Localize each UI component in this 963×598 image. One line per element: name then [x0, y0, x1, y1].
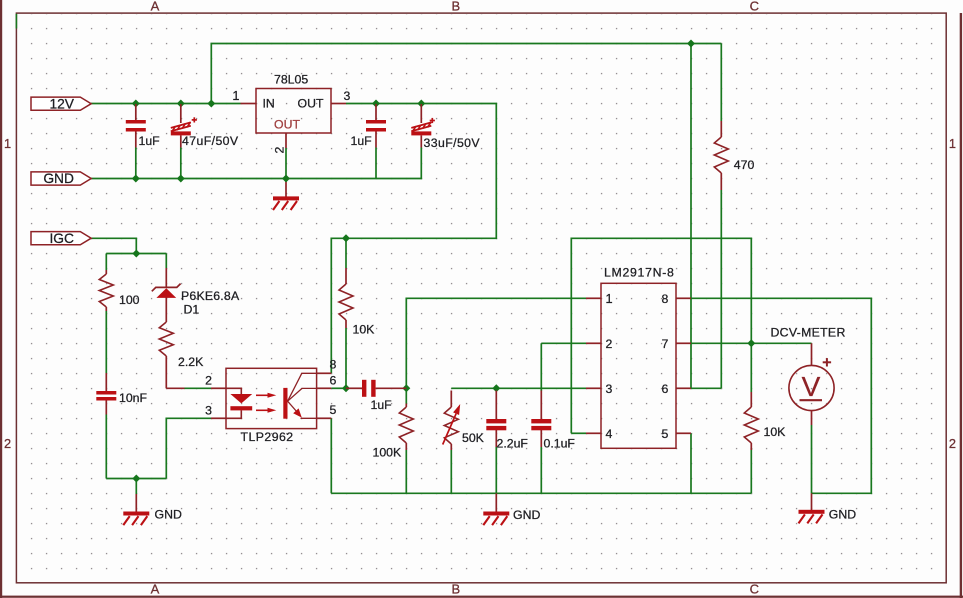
- svg-text:2: 2: [273, 147, 287, 154]
- svg-text:LM2917N-8: LM2917N-8: [604, 265, 675, 279]
- svg-text:IGC: IGC: [49, 231, 74, 246]
- svg-text:OUT: OUT: [298, 97, 324, 111]
- svg-text:3: 3: [205, 404, 212, 418]
- svg-text:8: 8: [661, 292, 668, 306]
- svg-text:5: 5: [661, 427, 668, 441]
- svg-text:10K: 10K: [764, 425, 787, 439]
- svg-text:P6KE6.8A: P6KE6.8A: [181, 289, 240, 303]
- svg-text:3: 3: [344, 89, 351, 103]
- svg-text:33uF/50V: 33uF/50V: [424, 136, 481, 150]
- svg-text:1uF: 1uF: [371, 398, 393, 412]
- svg-text:1: 1: [232, 88, 239, 103]
- svg-text:D1: D1: [184, 303, 200, 317]
- svg-text:5: 5: [330, 403, 337, 417]
- svg-text:4: 4: [606, 427, 613, 441]
- svg-text:10nF: 10nF: [119, 391, 148, 405]
- svg-text:47uF/50V: 47uF/50V: [182, 134, 239, 148]
- svg-text:1uF: 1uF: [139, 134, 161, 148]
- svg-text:1uF: 1uF: [351, 134, 373, 148]
- svg-text:A: A: [151, 0, 160, 14]
- svg-text:6: 6: [330, 373, 337, 387]
- svg-text:2: 2: [205, 374, 212, 388]
- svg-text:A: A: [151, 581, 160, 596]
- svg-text:50K: 50K: [462, 431, 485, 445]
- svg-text:GND: GND: [155, 507, 182, 521]
- svg-text:10K: 10K: [353, 323, 376, 337]
- svg-text:2: 2: [606, 337, 613, 351]
- svg-text:GND: GND: [829, 508, 856, 522]
- svg-text:V: V: [802, 371, 821, 402]
- svg-text:C: C: [750, 0, 759, 14]
- svg-text:2: 2: [949, 436, 956, 451]
- svg-text:7: 7: [661, 337, 668, 351]
- svg-text:12V: 12V: [49, 96, 74, 111]
- svg-text:2.2uF: 2.2uF: [497, 436, 529, 450]
- svg-text:1: 1: [949, 136, 956, 151]
- svg-text:6: 6: [661, 382, 668, 396]
- svg-text:8: 8: [330, 358, 337, 372]
- svg-text:GND: GND: [513, 508, 540, 522]
- svg-text:B: B: [451, 0, 460, 14]
- svg-text:2: 2: [4, 436, 11, 451]
- svg-text:1: 1: [606, 291, 613, 306]
- svg-text:DCV-METER: DCV-METER: [771, 326, 846, 340]
- svg-text:B: B: [451, 581, 460, 596]
- svg-text:100K: 100K: [373, 445, 403, 459]
- svg-text:OUT: OUT: [274, 117, 300, 131]
- svg-text:3: 3: [606, 382, 613, 396]
- svg-text:C: C: [750, 581, 759, 596]
- svg-text:470: 470: [734, 158, 755, 172]
- svg-text:1: 1: [4, 136, 11, 151]
- svg-text:IN: IN: [263, 97, 275, 111]
- svg-text:GND: GND: [43, 171, 74, 186]
- svg-text:100: 100: [119, 293, 140, 307]
- svg-text:2.2K: 2.2K: [178, 355, 204, 369]
- svg-text:TLP2962: TLP2962: [241, 430, 294, 444]
- svg-text:0.1uF: 0.1uF: [544, 437, 576, 451]
- svg-text:78L05: 78L05: [274, 73, 308, 87]
